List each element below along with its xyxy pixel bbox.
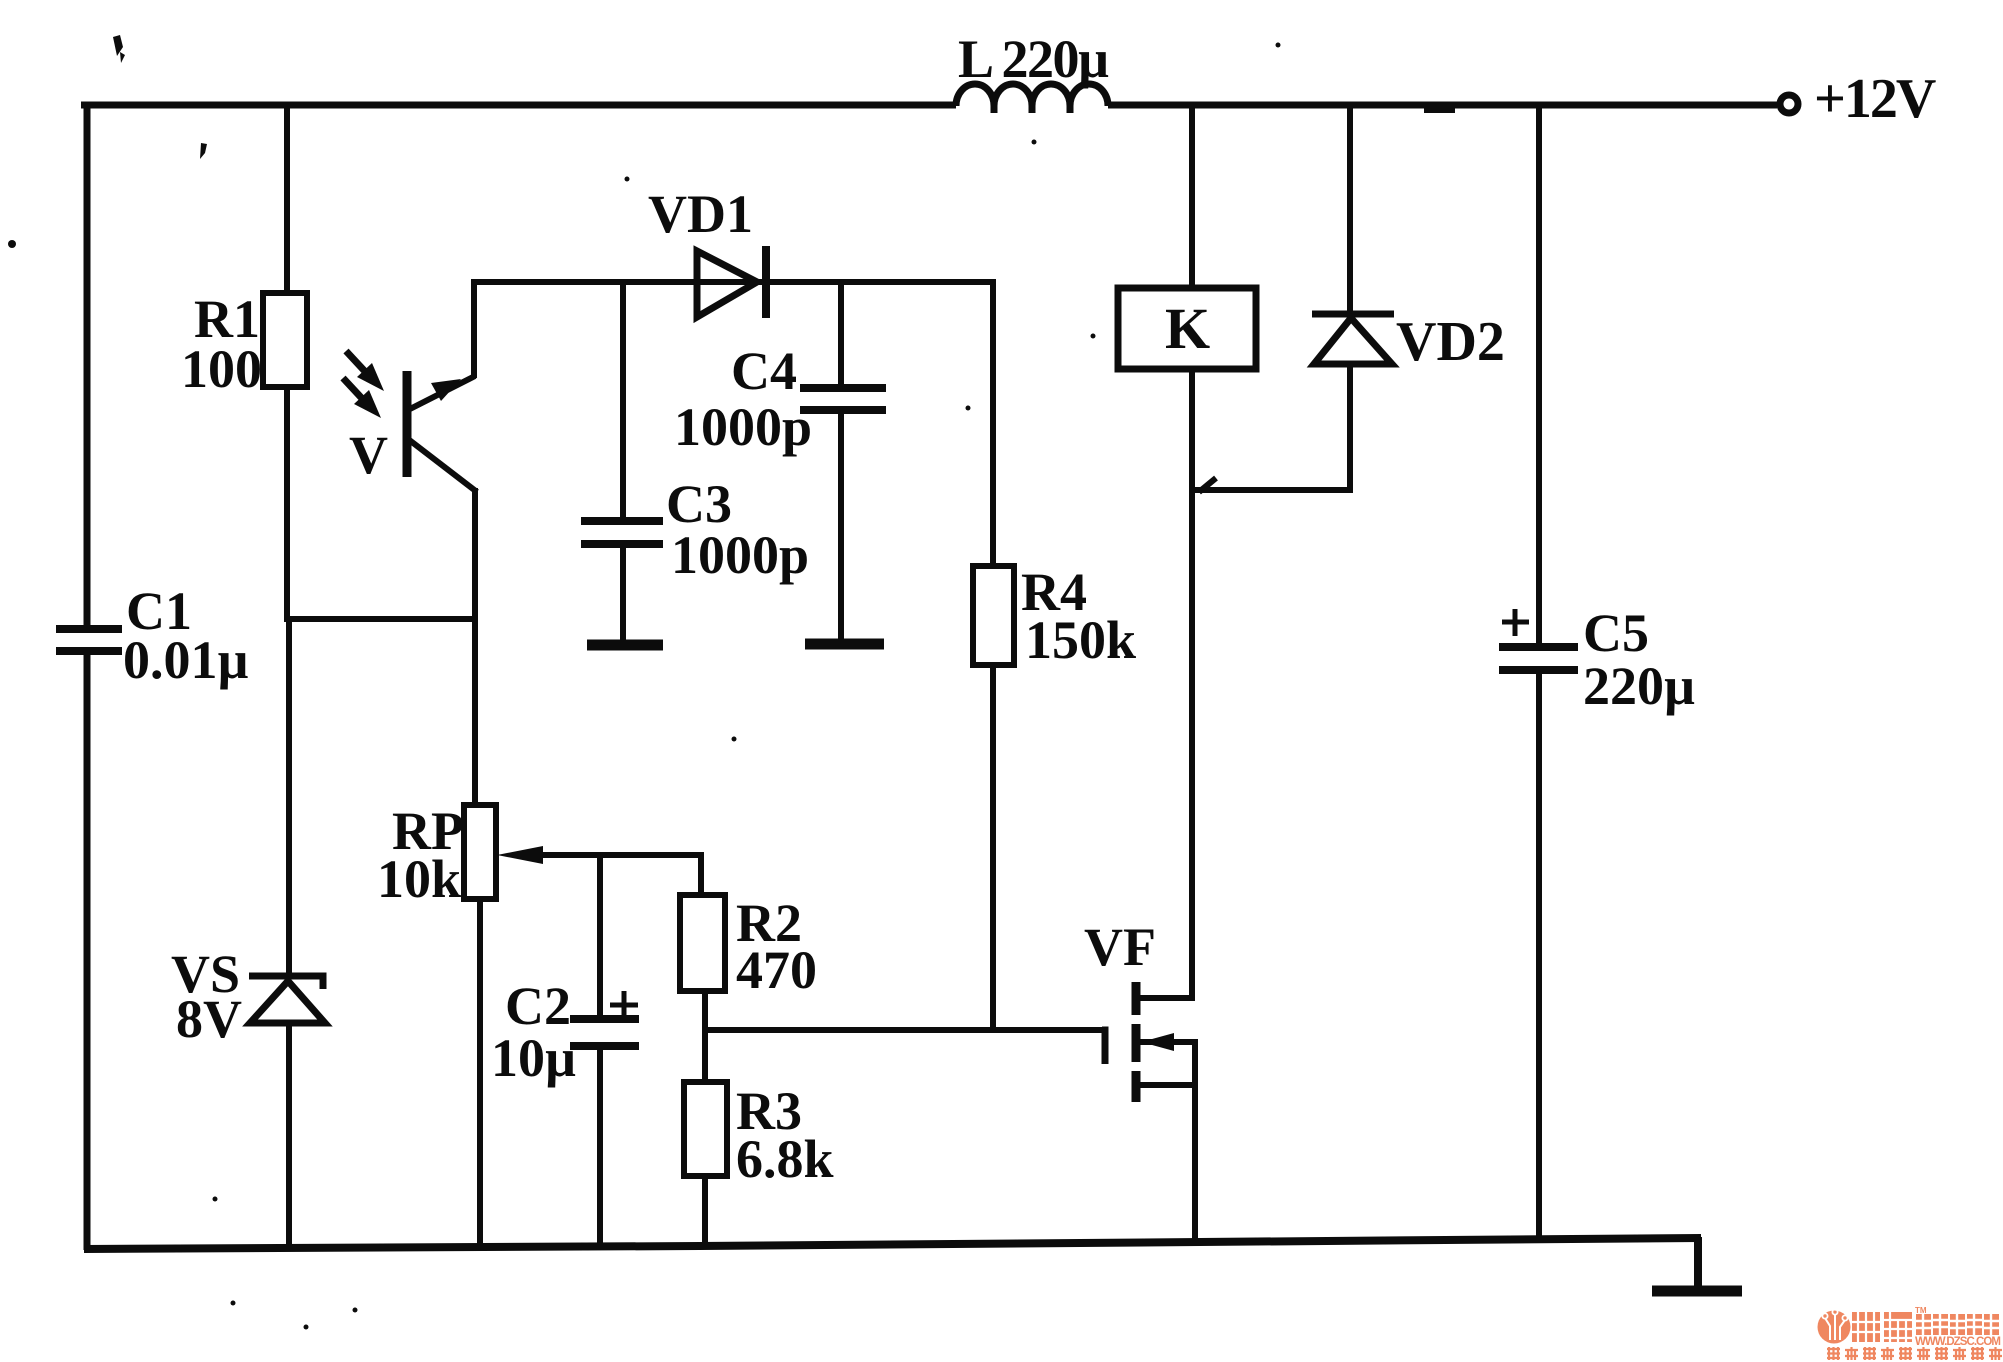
resistor R2 body — [680, 895, 725, 991]
svg-text:+12V: +12V — [1814, 68, 1936, 130]
wire R4 branch vertical upper — [990, 279, 996, 568]
wire junction horizontal R1-emitter — [287, 616, 477, 622]
svg-text:VD2: VD2 — [1396, 311, 1505, 373]
wire bottom rail — [84, 1238, 1701, 1249]
capacitor C4 bottom plate — [800, 406, 886, 414]
phototransistor V lower diagonal — [408, 439, 477, 492]
wire C4 branch vertical — [838, 282, 844, 386]
svg-text:V: V — [349, 425, 388, 485]
phototransistor V collector arrowhead — [431, 379, 461, 401]
svg-text:L 220µ: L 220µ — [958, 29, 1109, 89]
wire K bottom to drain — [1189, 369, 1195, 998]
diode VD1 triangle — [697, 251, 757, 317]
svg-text:WWW.DZSC.COM: WWW.DZSC.COM — [1915, 1336, 2001, 1348]
svg-text:C2: C2 — [505, 976, 571, 1036]
mosfet VF channel segment drain — [1132, 982, 1141, 1015]
capacitor C3 top plate — [581, 517, 663, 525]
svg-text:470: 470 — [736, 940, 817, 1000]
svg-text:C4: C4 — [731, 341, 797, 401]
wire C4 lower stub — [838, 413, 844, 640]
mosfet VF drain stub — [1139, 995, 1195, 1001]
svg-text:10µ: 10µ — [491, 1028, 576, 1088]
resistor R1 body — [263, 293, 307, 387]
wire VS anode to bottom rail — [286, 1023, 292, 1249]
scan speck dots — [625, 177, 630, 182]
svg-text:6.8k: 6.8k — [736, 1129, 834, 1189]
RP wiper arrowhead — [497, 846, 543, 864]
scan speck apostrophe top left — [113, 35, 123, 56]
watermark bottom row chars — [1827, 1347, 2002, 1360]
svg-text:0.01µ: 0.01µ — [123, 630, 249, 690]
svg-text:10k: 10k — [377, 849, 461, 909]
capacitor C4 top plate — [800, 384, 886, 392]
wire RP wiper horizontal — [540, 852, 701, 858]
capacitor C1 bottom plate — [56, 647, 122, 655]
svg-text:1000p: 1000p — [671, 525, 809, 585]
wire C2 branch vertical upper — [597, 852, 603, 1018]
mosfet VF body arrowhead — [1141, 1033, 1174, 1051]
wire R1 bottom to junction — [284, 387, 290, 622]
top rail nub — [1424, 105, 1455, 113]
watermark mid chars — [1916, 1314, 1999, 1335]
diode VD2 triangle — [1314, 318, 1392, 364]
watermark logo circle — [1818, 1311, 1851, 1344]
watermark big char 1 — [1852, 1312, 1912, 1342]
C3 bottom terminal bar — [587, 640, 663, 651]
potentiometer RP body — [464, 805, 496, 899]
wire left vertical (C1 branch upper) — [84, 102, 91, 627]
diode VD1 cathode bar — [762, 246, 770, 318]
svg-text:150k: 150k — [1025, 610, 1136, 670]
capacitor C2 top plate — [570, 1015, 639, 1023]
wire C3 lower stub — [620, 547, 626, 641]
svg-text:100: 100 — [181, 339, 262, 399]
mosfet VF channel segment source — [1132, 1071, 1141, 1102]
mosfet VF channel segment middle — [1132, 1024, 1141, 1062]
wire emitter vertical down to RP — [472, 488, 478, 807]
svg-text:220µ: 220µ — [1583, 656, 1695, 716]
light arrow 2 shaft — [354, 390, 381, 418]
capacitor C5 top plate — [1499, 643, 1578, 651]
wire top horizontal collector to R4 corner — [471, 279, 993, 285]
wire C5 branch upper — [1536, 102, 1542, 645]
wire gate net horizontal — [705, 1027, 1105, 1033]
plus sign C5 polarity — [1502, 620, 1529, 625]
phototransistor V upper diagonal — [408, 376, 475, 410]
capacitor C2 bottom plate — [570, 1042, 639, 1050]
mosfet VF gate bar — [1102, 1030, 1105, 1064]
svg-text:8V: 8V — [176, 989, 242, 1049]
svg-text:TM: TM — [1915, 1306, 1927, 1315]
ground bar — [1652, 1286, 1742, 1297]
wire left vertical (C1 branch lower) — [84, 654, 91, 1250]
plus sign C2 polarity — [610, 1003, 638, 1008]
wire top rail right segment — [1108, 102, 1777, 109]
C4 bottom terminal bar — [805, 639, 884, 650]
relay K box — [1118, 288, 1256, 369]
capacitor C3 bottom plate — [581, 540, 663, 548]
wire R2 bottom to gate net — [702, 991, 708, 1084]
svg-text:K: K — [1165, 296, 1210, 361]
wire ground drop — [1694, 1237, 1702, 1289]
wire VF source to bottom rail — [1192, 1039, 1198, 1243]
wire K branch from rail — [1189, 102, 1195, 290]
inductor L 220u — [956, 84, 1108, 113]
scan speck dot left — [8, 240, 16, 248]
svg-text:VF: VF — [1084, 917, 1156, 977]
mosfet VF body stub — [1139, 1039, 1195, 1045]
resistor R4 body — [973, 566, 1014, 665]
wire R4 lower to gate net — [990, 665, 996, 1031]
wire R1 branch top — [284, 102, 290, 295]
wire C5 lower — [1536, 673, 1542, 1241]
capacitor C1 top plate — [56, 625, 122, 633]
svg-text:VD1: VD1 — [648, 184, 753, 244]
zener VS cathode bar — [249, 976, 323, 989]
phototransistor V collector riser — [471, 279, 477, 378]
wire K-VD2 link horizontal — [1192, 487, 1350, 493]
diode VD2 cathode bar — [1312, 311, 1394, 318]
wire VD2 anode down — [1347, 362, 1353, 493]
wire VD2 branch from rail — [1347, 102, 1353, 312]
svg-text:C5: C5 — [1583, 603, 1649, 663]
scan speck comma — [200, 143, 207, 159]
wire top rail left segment — [81, 102, 956, 109]
wire wiper corner down to R2 — [698, 852, 704, 897]
wire RP bottom to rail — [477, 899, 483, 1248]
light arrow 1 shaft — [357, 363, 384, 391]
phototransistor V body bar — [403, 371, 412, 477]
wire C2 lower — [597, 1049, 603, 1248]
node +12V terminal circle — [1780, 95, 1798, 113]
resistor R3 body — [684, 1082, 727, 1176]
mosfet VF source stub — [1139, 1082, 1195, 1088]
capacitor C5 bottom plate — [1499, 666, 1578, 674]
junction tick at K-VD2 link — [1199, 478, 1216, 492]
wire R1 branch to VS — [286, 619, 292, 974]
wire C3 branch vertical — [620, 282, 626, 519]
svg-text:1000p: 1000p — [674, 397, 812, 457]
zener VS triangle — [250, 981, 325, 1023]
wire R3 bottom to rail — [702, 1176, 708, 1247]
